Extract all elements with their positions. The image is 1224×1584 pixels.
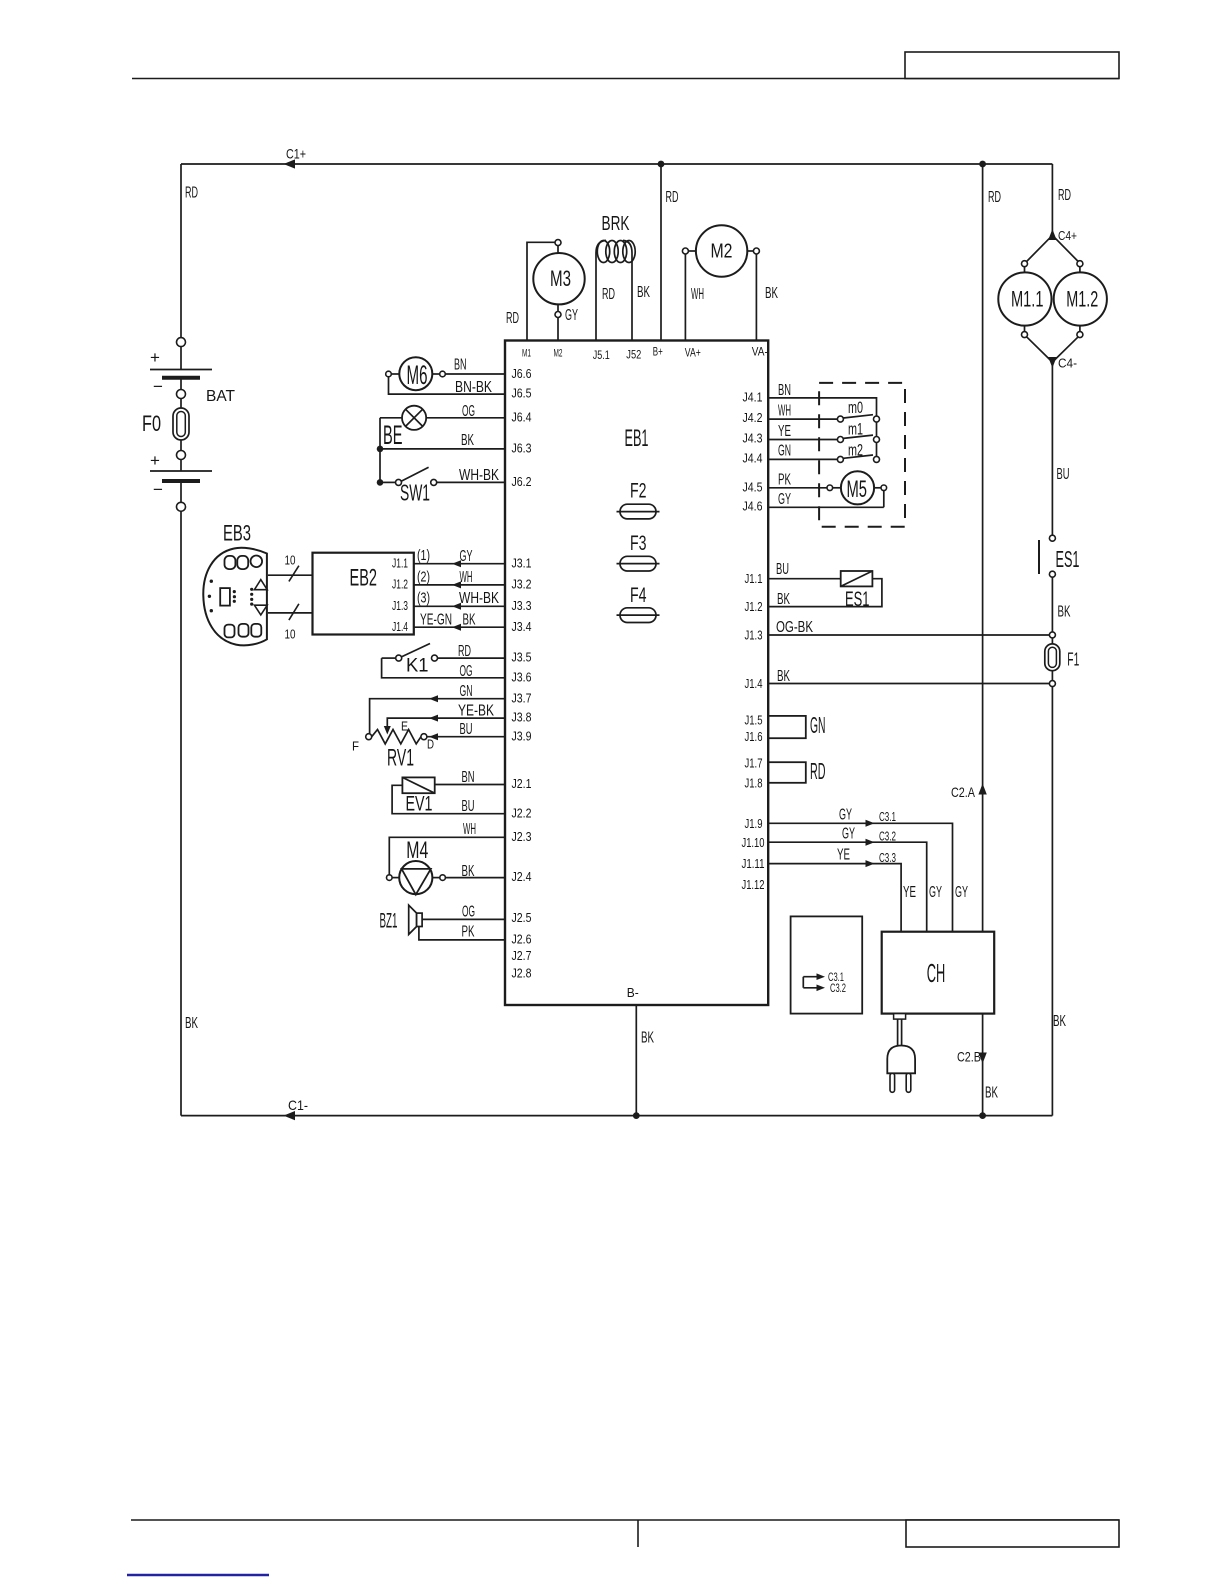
svg-text:m2: m2 bbox=[848, 441, 863, 460]
wire bottom rail C1- bbox=[181, 1115, 1052, 1117]
svg-text:J6.6: J6.6 bbox=[512, 366, 532, 381]
svg-text:J1.7: J1.7 bbox=[745, 756, 763, 771]
svg-text:m1: m1 bbox=[848, 420, 863, 439]
svg-text:GY: GY bbox=[929, 884, 942, 901]
fuse F1 bbox=[1045, 632, 1080, 687]
svg-text:WH-BK: WH-BK bbox=[459, 590, 499, 607]
svg-text:BK: BK bbox=[185, 1015, 198, 1032]
svg-text:ES1: ES1 bbox=[1056, 546, 1080, 572]
svg-text:J1.9: J1.9 bbox=[745, 816, 763, 831]
svg-text:C1-: C1- bbox=[288, 1097, 308, 1113]
wire EB3-EB2 bus upper bbox=[268, 574, 313, 576]
svg-text:J2.1: J2.1 bbox=[512, 776, 532, 791]
wire J1.1 BU bbox=[768, 578, 841, 580]
wire J4.2 WH bbox=[768, 418, 838, 420]
svg-text:J6.2: J6.2 bbox=[512, 474, 532, 489]
wire right rail BK bottom bbox=[1051, 687, 1053, 1116]
svg-text:RD: RD bbox=[988, 189, 1001, 206]
svg-text:BK: BK bbox=[461, 432, 474, 449]
wire J1.3 OG-BK bbox=[768, 634, 1049, 636]
svg-text:BK: BK bbox=[1058, 604, 1071, 621]
svg-text:10: 10 bbox=[285, 552, 296, 567]
svg-text:YE-BK: YE-BK bbox=[458, 703, 494, 720]
svg-text:OG-BK: OG-BK bbox=[776, 619, 813, 636]
svg-text:F2: F2 bbox=[630, 480, 647, 503]
arrow C4- bbox=[1048, 357, 1056, 368]
wire J4.6 GY bbox=[768, 491, 884, 508]
wire C2.A RD rail bbox=[982, 164, 984, 932]
svg-text:J1.1: J1.1 bbox=[392, 556, 408, 571]
battery BAT cell 1 bbox=[150, 347, 212, 396]
display unit EB2 bbox=[313, 553, 414, 635]
wire J1.9 GY C3.1 bbox=[768, 823, 952, 931]
svg-text:RV1: RV1 bbox=[387, 745, 414, 772]
svg-text:J1.4: J1.4 bbox=[745, 676, 763, 691]
relay coil ES1 bbox=[841, 571, 873, 611]
wire J3.5 RD bbox=[438, 657, 506, 659]
svg-text:BK: BK bbox=[1053, 1013, 1066, 1030]
svg-text:EB2: EB2 bbox=[350, 565, 378, 592]
svg-text:BK: BK bbox=[462, 863, 475, 880]
svg-text:BK: BK bbox=[777, 668, 790, 685]
charger CH bbox=[882, 932, 995, 1014]
svg-text:SW1: SW1 bbox=[400, 480, 430, 506]
svg-text:J3.7: J3.7 bbox=[512, 690, 532, 705]
wire J3.8 YE-BK bbox=[387, 718, 505, 727]
brake coil BRK bbox=[596, 213, 650, 341]
contact m0 bbox=[837, 398, 879, 422]
pump M4 bbox=[387, 837, 446, 895]
wire J2.6 PK bbox=[419, 927, 505, 940]
svg-text:RD: RD bbox=[602, 286, 615, 303]
valve EV1 bbox=[402, 777, 434, 815]
svg-text:GN: GN bbox=[460, 683, 473, 700]
plug symbol bbox=[887, 1014, 915, 1093]
svg-text:WH: WH bbox=[778, 403, 791, 420]
svg-text:C3.1: C3.1 bbox=[879, 809, 896, 824]
node battery terminal bottom bbox=[177, 502, 186, 511]
wire J6.3 BK bbox=[380, 448, 505, 450]
svg-text:m0: m0 bbox=[848, 398, 863, 417]
svg-text:F0: F0 bbox=[142, 411, 161, 436]
svg-text:J2.5: J2.5 bbox=[512, 910, 532, 925]
key switch ES1 bbox=[1039, 535, 1080, 577]
svg-text:J4.5: J4.5 bbox=[743, 479, 763, 494]
control head EB3 bbox=[203, 521, 267, 646]
wire J4.5 PK bbox=[768, 487, 827, 489]
svg-text:J1.4: J1.4 bbox=[392, 619, 408, 634]
svg-text:BN: BN bbox=[454, 357, 467, 374]
fuse F4 bbox=[617, 584, 660, 623]
wire J6.6 BN bbox=[445, 373, 505, 375]
svg-text:J4.1: J4.1 bbox=[743, 390, 763, 405]
svg-text:K1: K1 bbox=[406, 656, 429, 677]
wire J1.10 GY C3.2 bbox=[768, 842, 927, 932]
svg-text:D: D bbox=[427, 737, 434, 752]
svg-text:VA+: VA+ bbox=[685, 346, 701, 360]
footer rule bbox=[131, 1520, 1119, 1547]
wire left rail upper RD bbox=[180, 164, 182, 338]
wire J3.1 GY bbox=[414, 563, 505, 565]
svg-text:ES1: ES1 bbox=[845, 588, 870, 611]
svg-text:BN: BN bbox=[462, 769, 475, 786]
svg-text:BU: BU bbox=[776, 561, 789, 578]
wire B- BK bbox=[635, 1005, 637, 1116]
connector legend box C3 bbox=[791, 916, 863, 1013]
dashed enclosure M5 group bbox=[819, 383, 905, 527]
svg-text:WH: WH bbox=[460, 569, 473, 586]
svg-text:C3.2: C3.2 bbox=[830, 981, 846, 995]
svg-text:EB1: EB1 bbox=[625, 425, 649, 452]
wire right rail BK bbox=[1051, 577, 1053, 632]
wire J2.4 BK bbox=[445, 877, 505, 879]
svg-text:(1): (1) bbox=[417, 547, 430, 564]
svg-text:GY: GY bbox=[839, 807, 852, 824]
svg-text:(2): (2) bbox=[417, 569, 430, 586]
svg-text:J1.10: J1.10 bbox=[742, 835, 765, 850]
svg-text:BU: BU bbox=[462, 798, 475, 815]
motor M6 bbox=[386, 357, 446, 390]
wire M3 to M2 pin GY bbox=[557, 318, 559, 341]
svg-text:J5.1: J5.1 bbox=[593, 348, 610, 362]
svg-text:J1.5: J1.5 bbox=[745, 712, 763, 727]
svg-text:WH: WH bbox=[463, 821, 476, 838]
svg-text:F3: F3 bbox=[630, 532, 647, 555]
svg-text:F1: F1 bbox=[1067, 650, 1079, 670]
svg-text:C2.A: C2.A bbox=[951, 784, 976, 800]
battery BAT cell 2 bbox=[150, 451, 212, 502]
svg-text:J1.1: J1.1 bbox=[745, 571, 763, 586]
svg-text:−: − bbox=[153, 377, 163, 396]
svg-text:J3.1: J3.1 bbox=[512, 556, 532, 571]
svg-text:PK: PK bbox=[462, 924, 475, 941]
svg-text:WH-BK: WH-BK bbox=[459, 467, 499, 484]
wire J2.2 BU bbox=[392, 785, 505, 813]
svg-text:GY: GY bbox=[955, 884, 968, 901]
wire M1 to M3 bbox=[527, 242, 555, 340]
fuse F2 bbox=[617, 480, 660, 519]
wire EB3-EB2 bus lower bbox=[268, 612, 313, 614]
svg-text:B+: B+ bbox=[653, 345, 663, 359]
svg-text:BK: BK bbox=[765, 285, 778, 302]
svg-text:BE: BE bbox=[383, 420, 403, 450]
contact m2 bbox=[837, 441, 879, 463]
footer blue link underline bbox=[127, 1574, 269, 1577]
svg-text:J1.12: J1.12 bbox=[742, 877, 765, 892]
svg-text:BU: BU bbox=[460, 721, 473, 738]
svg-text:M1.1: M1.1 bbox=[1011, 287, 1044, 312]
wire J3.3 WH-BK bbox=[414, 605, 505, 607]
svg-text:E: E bbox=[401, 719, 408, 734]
svg-text:+: + bbox=[150, 451, 160, 470]
svg-text:GY: GY bbox=[778, 491, 791, 508]
wire VA+ WH bbox=[684, 254, 686, 341]
svg-text:BN-BK: BN-BK bbox=[455, 379, 492, 396]
svg-text:J4.6: J4.6 bbox=[743, 499, 763, 514]
svg-text:J2.2: J2.2 bbox=[512, 805, 532, 820]
pin labels EB1 left bbox=[512, 366, 532, 981]
main controller EB1 bbox=[505, 341, 768, 1006]
svg-text:J4.3: J4.3 bbox=[743, 431, 763, 446]
svg-text:J1.11: J1.11 bbox=[742, 856, 765, 871]
svg-text:GY: GY bbox=[842, 826, 855, 843]
wire J6.4 OG bbox=[380, 417, 505, 419]
svg-text:J3.3: J3.3 bbox=[512, 598, 532, 613]
svg-text:J4.2: J4.2 bbox=[743, 410, 763, 425]
svg-text:BZ1: BZ1 bbox=[380, 910, 398, 933]
wire J3.6 OG bbox=[382, 658, 505, 678]
header title box bbox=[905, 52, 1119, 79]
svg-text:J2.6: J2.6 bbox=[512, 932, 532, 947]
svg-text:J6.5: J6.5 bbox=[512, 386, 532, 401]
svg-text:J1.2: J1.2 bbox=[392, 577, 408, 592]
svg-text:C1+: C1+ bbox=[286, 146, 306, 162]
wire J4.1 BN bbox=[768, 398, 876, 416]
svg-text:BK: BK bbox=[777, 591, 790, 608]
svg-text:BAT: BAT bbox=[206, 388, 235, 405]
wire top rail C1+ bbox=[181, 163, 1052, 165]
svg-text:YE-GN: YE-GN bbox=[420, 612, 452, 629]
svg-text:RD: RD bbox=[185, 185, 198, 202]
svg-text:F: F bbox=[352, 739, 359, 754]
wire J1.11 YE C3.3 bbox=[768, 864, 901, 932]
svg-text:J3.4: J3.4 bbox=[512, 619, 532, 634]
footer box bbox=[906, 1520, 1119, 1547]
svg-text:M2: M2 bbox=[554, 348, 563, 360]
potentiometer RV1 bbox=[352, 719, 434, 772]
wire J2.5 OG bbox=[422, 918, 505, 920]
wire right rail BU bbox=[1051, 362, 1053, 535]
node battery mid terminal bbox=[177, 390, 186, 399]
svg-text:BU: BU bbox=[1057, 466, 1070, 483]
svg-text:+: + bbox=[150, 348, 160, 367]
svg-text:OG: OG bbox=[460, 663, 473, 680]
svg-text:BK: BK bbox=[641, 1030, 654, 1047]
svg-text:BK: BK bbox=[637, 284, 650, 301]
arrow C2.A bbox=[978, 784, 986, 795]
svg-text:(3): (3) bbox=[417, 590, 430, 607]
svg-text:M1: M1 bbox=[522, 348, 531, 360]
wire J2.1 BN bbox=[435, 784, 505, 786]
switch SW1 bbox=[377, 467, 437, 505]
svg-text:C2.B: C2.B bbox=[957, 1049, 981, 1065]
wire J4.4 GN bbox=[768, 458, 838, 460]
fuse F0 bbox=[142, 399, 189, 451]
svg-text:EV1: EV1 bbox=[406, 793, 433, 816]
svg-text:C3.2: C3.2 bbox=[879, 829, 896, 844]
fuse F3 bbox=[617, 532, 660, 571]
motor M2 bbox=[682, 225, 759, 276]
svg-text:J4.4: J4.4 bbox=[743, 450, 763, 465]
svg-text:J1.3: J1.3 bbox=[745, 627, 763, 642]
svg-text:J1.3: J1.3 bbox=[392, 598, 408, 613]
svg-text:BK: BK bbox=[985, 1085, 998, 1102]
svg-text:BN: BN bbox=[778, 382, 791, 399]
lamp BE bbox=[383, 406, 426, 450]
wire B+ RD bbox=[660, 164, 662, 341]
svg-text:OG: OG bbox=[462, 904, 475, 921]
buzzer BZ1 bbox=[380, 905, 423, 934]
svg-text:J1.8: J1.8 bbox=[745, 775, 763, 790]
svg-text:OG: OG bbox=[462, 403, 475, 420]
wire J1.4 BK bbox=[768, 683, 1049, 685]
svg-text:BRK: BRK bbox=[602, 213, 630, 235]
arrow C1- bbox=[284, 1111, 296, 1120]
svg-text:−: − bbox=[153, 480, 163, 499]
svg-text:B-: B- bbox=[627, 985, 639, 1000]
svg-text:J2.8: J2.8 bbox=[512, 966, 532, 981]
arrow C4+ bbox=[1048, 229, 1056, 240]
svg-text:C4+: C4+ bbox=[1058, 228, 1077, 243]
node battery terminal top bbox=[177, 338, 186, 347]
svg-text:VA-: VA- bbox=[752, 345, 768, 359]
header rule bbox=[132, 78, 1119, 80]
svg-text:WH: WH bbox=[691, 286, 704, 303]
jumper box GN J1.5-J1.6 bbox=[768, 716, 806, 738]
wire J6.2 WH-BK bbox=[437, 481, 505, 483]
wire J3.9 BU bbox=[427, 736, 505, 738]
svg-text:M6: M6 bbox=[407, 360, 428, 390]
svg-text:RD: RD bbox=[458, 643, 471, 660]
svg-text:GN: GN bbox=[810, 712, 826, 738]
pin labels EB1 right J4 bbox=[742, 390, 765, 892]
svg-text:EB3: EB3 bbox=[223, 521, 251, 546]
svg-text:CH: CH bbox=[927, 958, 946, 988]
svg-text:YE: YE bbox=[778, 423, 791, 440]
svg-text:J3.2: J3.2 bbox=[512, 577, 532, 592]
svg-text:J6.3: J6.3 bbox=[512, 441, 532, 456]
svg-text:J6.4: J6.4 bbox=[512, 410, 532, 425]
svg-text:F4: F4 bbox=[630, 584, 647, 607]
wire J3.7 GN bbox=[370, 699, 505, 734]
wire C2.B BK bbox=[982, 1014, 984, 1116]
wire J3.4 YE-GN BK bbox=[414, 626, 505, 628]
svg-text:M4: M4 bbox=[406, 837, 428, 864]
wire J6.5 BN-BK bbox=[389, 377, 506, 394]
svg-text:C3.3: C3.3 bbox=[879, 850, 896, 865]
svg-text:M5: M5 bbox=[847, 476, 868, 503]
jumper box RD J1.7-J1.8 bbox=[768, 762, 806, 783]
svg-text:J2.4: J2.4 bbox=[512, 869, 532, 884]
svg-text:J1.6: J1.6 bbox=[745, 729, 763, 744]
motor M5 bbox=[827, 471, 887, 504]
svg-text:M2: M2 bbox=[711, 241, 733, 263]
svg-text:YE: YE bbox=[837, 847, 850, 864]
svg-text:J3.9: J3.9 bbox=[512, 728, 532, 743]
contact m1 bbox=[837, 420, 879, 443]
wire right rail RD top bbox=[1051, 164, 1053, 232]
svg-text:J3.6: J3.6 bbox=[512, 669, 532, 684]
svg-text:J1.2: J1.2 bbox=[745, 599, 763, 614]
motor pair M1.1 M1.2 diamond bbox=[998, 235, 1107, 362]
arrow C1+ bbox=[284, 159, 296, 168]
wire VA- BK bbox=[755, 254, 757, 341]
svg-text:M1.2: M1.2 bbox=[1066, 287, 1098, 312]
svg-text:10: 10 bbox=[285, 627, 296, 642]
svg-text:J3.5: J3.5 bbox=[512, 650, 532, 665]
wire J2.3 WH bbox=[389, 837, 505, 875]
svg-text:J52: J52 bbox=[626, 348, 641, 362]
wire left rail lower BK bbox=[180, 511, 182, 1115]
svg-text:RD: RD bbox=[810, 758, 826, 784]
svg-text:J2.3: J2.3 bbox=[512, 829, 532, 844]
svg-text:GY: GY bbox=[460, 548, 473, 565]
svg-text:C4-: C4- bbox=[1058, 356, 1077, 371]
svg-text:GN: GN bbox=[778, 443, 791, 460]
svg-text:RD: RD bbox=[1058, 187, 1071, 204]
wire J4.3 YE bbox=[768, 439, 838, 441]
svg-text:YE: YE bbox=[903, 884, 916, 901]
svg-text:RD: RD bbox=[506, 310, 519, 327]
motor M3 bbox=[533, 240, 584, 318]
svg-text:BK: BK bbox=[463, 612, 476, 629]
svg-text:M3: M3 bbox=[550, 266, 571, 291]
svg-text:PK: PK bbox=[778, 472, 791, 489]
relay K1 bbox=[382, 644, 438, 677]
wire J3.2 WH bbox=[414, 584, 505, 586]
wire stub left vertical bbox=[379, 418, 381, 483]
svg-text:RD: RD bbox=[666, 189, 679, 206]
node battery terminal bbox=[177, 451, 186, 460]
svg-text:GY: GY bbox=[565, 307, 578, 324]
svg-text:J2.7: J2.7 bbox=[512, 948, 532, 963]
svg-text:J3.8: J3.8 bbox=[512, 710, 532, 725]
wire J1.2 BK bbox=[768, 579, 882, 607]
